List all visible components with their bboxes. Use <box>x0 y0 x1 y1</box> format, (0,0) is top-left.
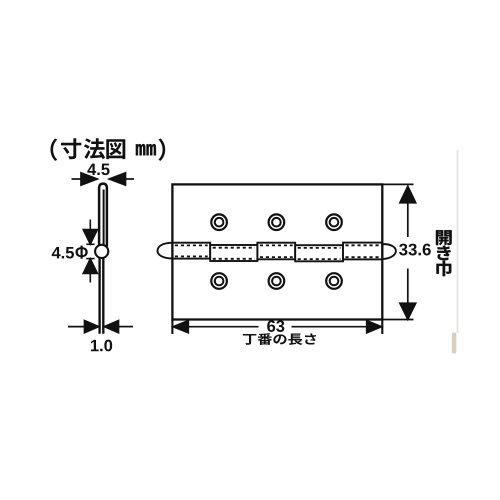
knuckle segment 5 <box>343 243 382 260</box>
side view: top dimension arrows <box>72 173 135 185</box>
knuckle segment 3 <box>257 243 295 260</box>
63 dimension line with arrows <box>173 321 381 333</box>
title text （寸法図 mm） <box>50 138 165 161</box>
side view: leaf lines below knuckle <box>98 256 100 334</box>
side view: 1.0 label <box>91 340 112 352</box>
hinge pin right cap <box>383 244 396 259</box>
knuckle segment 1 <box>172 243 210 259</box>
hinge plate rectangle <box>172 184 382 319</box>
screw holes <box>211 214 342 288</box>
33.6 dimension line with arrows <box>400 186 416 319</box>
side view: 4.5Φ label <box>52 247 74 259</box>
開き巾 vertical label <box>436 230 452 276</box>
丁番の長さ label <box>243 333 316 345</box>
side view: bottom dimension 1.0 arrows <box>68 321 133 333</box>
63 label <box>267 320 284 332</box>
side view: middle leaf line <box>103 190 105 249</box>
side view: top dimension 4.5 label <box>87 164 109 176</box>
faint photo edge line <box>457 150 459 333</box>
knuckle segment 4 <box>295 245 343 261</box>
side view: 4.5 dia dimension ticks and arrows <box>83 220 97 283</box>
33.6 dimension extension lines <box>382 183 413 185</box>
hinge pin left cap <box>158 243 173 259</box>
33.6 label <box>399 244 431 256</box>
faint beige mark <box>452 333 457 354</box>
side view: hinge leaves outline (top part) <box>99 184 107 247</box>
knuckle segment 2 <box>210 245 257 261</box>
side view: knuckle circle <box>95 245 108 258</box>
knuckle seam dashed lines <box>175 245 380 259</box>
63 dimension extension lines <box>171 320 173 335</box>
